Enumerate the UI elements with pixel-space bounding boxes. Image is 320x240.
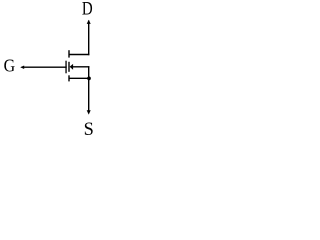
channel body segment xyxy=(68,62,70,72)
wire source vertical xyxy=(88,78,90,111)
svg-text:D: D xyxy=(82,0,93,20)
wire source horizontal xyxy=(69,77,90,79)
arrowhead up toward D xyxy=(87,20,91,24)
arrowhead down toward S xyxy=(87,110,91,114)
body arrow (N-channel, points into channel) xyxy=(70,64,74,70)
channel source segment xyxy=(68,75,70,81)
arrowhead left toward G xyxy=(20,65,24,69)
wire gate horizontal xyxy=(22,66,67,68)
junction dot xyxy=(87,77,91,81)
svg-text:G: G xyxy=(4,56,16,76)
wire body to source xyxy=(73,66,90,68)
wire drain vertical xyxy=(88,21,90,56)
gate bar xyxy=(65,61,67,74)
svg-text:S: S xyxy=(84,120,94,136)
channel drain segment xyxy=(68,50,70,57)
wire body-source vertical xyxy=(88,66,90,79)
wire drain horizontal xyxy=(69,54,90,56)
